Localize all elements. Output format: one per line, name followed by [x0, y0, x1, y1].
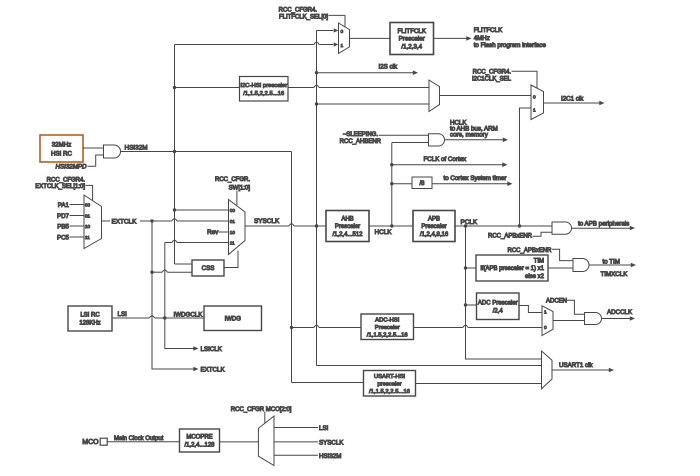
- junction PCLK / bus F: [518, 224, 521, 227]
- mux MCO source select: [258, 416, 274, 466]
- svg-text:ADCEN: ADCEN: [546, 299, 567, 305]
- svg-text:SYSCLK: SYSCLK: [319, 439, 344, 446]
- svg-text:RCC_APBxENR: RCC_APBxENR: [488, 234, 533, 240]
- divider /8: [412, 177, 432, 189]
- svg-text:01: 01: [230, 219, 236, 224]
- junction LSI / bus H: [163, 316, 166, 319]
- junction bus E to ADC prescaler: [464, 303, 467, 306]
- wire PC5 to mux: [70, 236, 85, 238]
- wire HCLK wire: [369, 225, 413, 227]
- wire bus C SYSCLK vertical: [316, 31, 318, 366]
- arrowhead EXTCLK bottom: [193, 367, 198, 372]
- wire FLITFCLK prescaler output: [434, 37, 467, 39]
- mux FLITFCLK_SEL: [339, 23, 350, 53]
- wire ADC prescaler output to mux input 1: [519, 306, 542, 313]
- wire bus E PCLK vertical (lower) to USART mux: [466, 330, 542, 359]
- svg-text:RCC_APBxENR: RCC_APBxENR: [507, 248, 552, 254]
- wire PD7 to mux: [70, 215, 85, 217]
- oscillator HSI RC 32MHz (orange box): [40, 135, 83, 162]
- mux I2C clock combiner: [429, 80, 440, 112]
- svg-text:USART1 clk: USART1 clk: [559, 362, 593, 369]
- svg-text:else x2: else x2: [525, 274, 545, 280]
- wire ADC-HSI output to ADC mux input 0: [468, 327, 542, 329]
- arrowhead HCLK to AHB bus: [503, 138, 508, 143]
- AND gate ADC enable: [585, 313, 602, 325]
- wire to Cortex System timer: [432, 183, 508, 185]
- svg-text:HSI RC: HSI RC: [51, 151, 73, 158]
- wire bus A HSI32M vertical: [174, 45, 176, 265]
- svg-text:CSS: CSS: [202, 265, 215, 272]
- wire SYSCLK to I2C combiner mux input: [317, 103, 430, 105]
- wire ADC mux output to gate: [553, 320, 585, 322]
- svg-text:128KHz: 128KHz: [79, 321, 100, 327]
- wire Rev to SW mux input 10: [219, 231, 229, 233]
- svg-text:/1,2,4...128: /1,2,4...128: [184, 443, 215, 449]
- svg-text:PCLK: PCLK: [461, 219, 478, 226]
- svg-text:00: 00: [85, 203, 91, 208]
- block ADC-HSI Prescaler: [361, 314, 414, 340]
- wire PCLK to TIM block: [466, 267, 477, 269]
- svg-text:MCOPRE: MCOPRE: [186, 435, 212, 441]
- svg-text:HSI32M: HSI32M: [125, 144, 148, 151]
- wire I2C1 clk output: [544, 102, 600, 104]
- wire MCOPRE input wire: [220, 441, 259, 443]
- wire LSI wire (right part): [155, 317, 204, 319]
- junction bus C at SYSCLK wire: [315, 224, 318, 227]
- svg-text:Prescaler: Prescaler: [335, 224, 360, 230]
- svg-text:PD7: PD7: [57, 213, 70, 220]
- wire HSI32M horizontal: [121, 151, 292, 153]
- arrowhead to Cortex System timer: [507, 181, 512, 186]
- junction bus B to ADC-HSI prescaler: [290, 326, 293, 329]
- arrowhead to APB peripherals: [630, 226, 635, 231]
- svg-text:APB: APB: [428, 217, 440, 223]
- arrowhead I2S clk: [413, 70, 418, 75]
- mux EXTCLK_SEL: [84, 195, 102, 249]
- arrowhead FLITFCLK output: [466, 36, 471, 41]
- wire LSI to SW mux input 11 (right): [177, 242, 228, 244]
- junction bus D to FCLK: [390, 163, 393, 166]
- wire MCO select wire: [264, 412, 266, 424]
- svg-text:HSI32MPD: HSI32MPD: [56, 164, 87, 171]
- arrowhead I2C1 clk: [599, 101, 604, 106]
- wire HSI RC to AND gate: [83, 147, 104, 149]
- mux USART1 clock select: [542, 351, 553, 389]
- svg-text:AHB: AHB: [341, 217, 353, 223]
- wire I2C-HSI prescaler output (left part): [288, 87, 314, 89]
- wire EXTCLK output (right part): [177, 220, 228, 222]
- mux I2C1CLK_SEL: [531, 85, 544, 120]
- svg-text:EXTCLK_SEL[1:0]: EXTCLK_SEL[1:0]: [35, 184, 85, 190]
- junction EXTCLK / bus G: [150, 219, 153, 222]
- svg-text:ADC-HSI: ADC-HSI: [375, 317, 400, 323]
- svg-text:FLITFCLK: FLITFCLK: [397, 28, 426, 35]
- wire ADCCLK wire: [602, 318, 631, 320]
- wire EXTCLK_SEL select wire: [86, 185, 93, 201]
- svg-text:00: 00: [230, 208, 236, 213]
- block MCOPRE prescaler: [180, 429, 220, 452]
- svg-text:/2,4: /2,4: [493, 308, 504, 314]
- svg-text:11: 11: [230, 241, 235, 246]
- svg-text:1: 1: [544, 309, 547, 315]
- block IWDG watchdog: [204, 306, 262, 331]
- wire USART-HSI output to USART mux: [416, 383, 542, 385]
- arrowhead FCLK of Cortex: [502, 162, 507, 167]
- wire FCLK of Cortex: [392, 164, 503, 166]
- block I2C-HSI prescaler: [240, 77, 289, 102]
- wire HSI32MPD to AND gate: [88, 155, 104, 166]
- svg-text:01: 01: [85, 214, 91, 219]
- svg-text:I2C-HSI prescaler: I2C-HSI prescaler: [240, 83, 287, 89]
- svg-text:TIMXCLK: TIMXCLK: [601, 271, 629, 278]
- mux ADC clock select: [542, 306, 553, 336]
- mux SW system clock: [229, 200, 246, 255]
- wire I2C combiner output to I2C1CLK_SEL mux: [440, 95, 532, 97]
- svg-text:/1,1.5,2,2.5...16: /1,1.5,2,2.5...16: [367, 333, 409, 339]
- wire HSI32M to MCO mux: [274, 454, 318, 456]
- block TIM clock multiplier: [476, 255, 548, 281]
- svg-text:SYSCLK: SYSCLK: [254, 218, 280, 225]
- svg-text:/1,2,4,8,16: /1,2,4,8,16: [420, 232, 449, 238]
- svg-text:EXTCLK: EXTCLK: [112, 219, 138, 226]
- block USART-HSI prescaler: [364, 371, 416, 397]
- wire bus E PCLK vertical (upper): [465, 226, 467, 325]
- svg-text:Rev: Rev: [207, 229, 219, 236]
- AND gate HSI32M gating: [104, 145, 121, 158]
- wire HCLK to /8 divider: [392, 183, 412, 185]
- svg-text:I2S clk: I2S clk: [379, 64, 398, 71]
- wire HCLK gate output: [445, 139, 504, 141]
- svg-text:I2C1 clk: I2C1 clk: [561, 95, 584, 102]
- svg-text:RCC_CFGR4.: RCC_CFGR4.: [473, 70, 512, 76]
- wire SYSCLK to FLITFCLK mux input 0: [317, 30, 334, 32]
- svg-text:to TIM: to TIM: [603, 258, 620, 265]
- arrowhead to TIM: [631, 263, 636, 268]
- svg-text:Prescaler: Prescaler: [375, 325, 400, 331]
- wire PCLK wire: [455, 225, 552, 227]
- svg-text:TIM: TIM: [534, 258, 544, 264]
- wire FLITFCLK mux output: [350, 37, 391, 39]
- svg-text:1: 1: [341, 43, 344, 49]
- svg-text:32MHz: 32MHz: [52, 142, 72, 149]
- junction bus A to SW mux input 00: [173, 208, 176, 211]
- AND gate HCLK enable: [429, 134, 445, 146]
- wire bus B HSI32M vertical: [291, 152, 293, 383]
- junction bus C to I2C mux: [315, 102, 318, 105]
- svg-text:/1,1.5,2,2.5...16: /1,1.5,2,2.5...16: [243, 91, 285, 97]
- svg-text:HCLK: HCLK: [375, 229, 393, 236]
- wire TIMXCLK wire: [589, 264, 631, 266]
- wire EXTCLK output (left part): [102, 220, 172, 222]
- svg-text:0: 0: [544, 325, 547, 331]
- wire bus G EXTCLK vertical to arrow: [152, 221, 194, 369]
- wire bus H LSI vertical / LSICLK: [165, 243, 194, 349]
- wire EXTCLK to CSS lower input (right): [167, 271, 192, 273]
- wire bus D HCLK vertical: [391, 143, 393, 227]
- svg-text:to Flash program interface: to Flash program interface: [474, 42, 547, 49]
- arrowhead ADCCLK: [630, 316, 635, 321]
- junction bus C to I2S clk: [315, 71, 318, 74]
- wire I2C-HSI prescaler output (right part): [319, 87, 429, 89]
- wire SW select wire: [236, 191, 238, 206]
- wire ADCEN to gate input: [567, 300, 585, 314]
- wire TIM APBxENR to gate input: [552, 249, 573, 260]
- block CSS clock security: [192, 260, 224, 276]
- wire TIM block output to gate: [548, 267, 573, 269]
- svg-text:LSI: LSI: [118, 311, 128, 318]
- AND gate APB peripherals enable: [552, 222, 571, 234]
- wire HSI to ADC-HSI prescaler (right): [319, 327, 361, 329]
- wire LSI wire (left part): [112, 317, 149, 319]
- wire LSI to MCO mux: [274, 427, 318, 429]
- svg-text:PB5: PB5: [57, 223, 69, 230]
- wire HSI32M to FLITFCLK mux input 1 (right): [319, 44, 333, 46]
- svg-text:RCC_CFGR MCO[2:0]: RCC_CFGR MCO[2:0]: [231, 407, 292, 413]
- svg-text:Main Clock Output: Main Clock Output: [114, 436, 164, 442]
- wire bus A to I2C-HSI prescaler input: [175, 87, 240, 89]
- svg-text:SW[1:0]: SW[1:0]: [229, 186, 251, 192]
- svg-text:LSI RC: LSI RC: [80, 313, 100, 319]
- wire HSI32M to FLITFCLK mux input 1 (left): [175, 44, 314, 46]
- svg-text:to Cortex System timer: to Cortex System timer: [444, 175, 507, 182]
- wire PCLK to ADC prescaler: [466, 304, 477, 306]
- junction bus D at HCLK wire: [390, 224, 393, 227]
- svg-text:HSI32M: HSI32M: [319, 453, 341, 460]
- wire to APB peripherals wire: [572, 227, 631, 229]
- svg-text:10: 10: [85, 224, 91, 229]
- wire HSI to ADC-HSI prescaler (left): [292, 327, 314, 329]
- wire bus B to USART-HSI prescaler input: [292, 382, 364, 384]
- wire bus F PCLK to I2C1CLK_SEL mux input 1: [520, 108, 532, 226]
- svg-text:PA1: PA1: [58, 202, 70, 209]
- wire I2C1CLK_SEL select wire: [512, 71, 538, 89]
- block APB Prescaler: [413, 211, 455, 242]
- net label EXTCLK: [110, 216, 140, 226]
- arrowhead into FLITFCLK mux input 1: [334, 42, 339, 46]
- svg-text:RCC_CFGR.: RCC_CFGR.: [215, 177, 250, 183]
- junction PCLK / bus E: [464, 224, 467, 227]
- wire PA1 to mux: [70, 204, 85, 206]
- svg-text:0: 0: [341, 29, 344, 35]
- svg-text:to APB peripherals: to APB peripherals: [578, 221, 629, 228]
- svg-text:IWDG: IWDG: [225, 316, 242, 322]
- arrowhead USART1 clk: [609, 368, 614, 373]
- svg-text:/8: /8: [419, 181, 425, 187]
- svg-text:ADCCLK: ADCCLK: [607, 309, 633, 316]
- wire SYSCLK to USART1 mux input: [317, 365, 542, 367]
- junction EXTCLK bus to CSS: [150, 271, 153, 274]
- svg-text:I2C1CLK_SEL: I2C1CLK_SEL: [472, 76, 512, 82]
- svg-text:EXTCLK: EXTCLK: [201, 366, 226, 373]
- arrowhead into FLITFCLK mux input 0: [334, 28, 339, 32]
- wire APBxENR to gate input: [533, 232, 553, 236]
- wire bus A to CSS upper input: [175, 263, 193, 265]
- svg-text:RCC_CFGR4.: RCC_CFGR4.: [279, 8, 318, 14]
- wire FLITFCLK_SEL to mux select: [329, 15, 346, 26]
- junction bus A to I2C-HSI prescaler: [173, 86, 176, 89]
- wire I2S clk: [317, 72, 414, 74]
- svg-text:RCC_CFGR4.: RCC_CFGR4.: [47, 177, 86, 183]
- junction bus D to /8 divider: [390, 182, 393, 185]
- svg-text:FLITFCLK: FLITFCLK: [474, 27, 503, 34]
- svg-text:1: 1: [533, 108, 536, 114]
- block FLITFCLK Prescaler: [390, 23, 434, 55]
- svg-text:/1,2,4...512: /1,2,4...512: [332, 232, 363, 238]
- svg-text:FCLK of Cortex: FCLK of Cortex: [424, 156, 468, 163]
- svg-text:11: 11: [85, 235, 90, 240]
- wire SLEEPING to HCLK gate input: [379, 134, 429, 136]
- oscillator LSI RC 128KHz: [68, 306, 112, 331]
- svg-text:FLITFCLK_SEL[0]: FLITFCLK_SEL[0]: [279, 14, 328, 20]
- wire SYSCLK (right part): [294, 225, 326, 227]
- svg-text:Prescaler: Prescaler: [421, 224, 446, 230]
- svg-text:Prescaler: Prescaler: [399, 36, 425, 43]
- svg-text:ADC Prescaler: ADC Prescaler: [478, 300, 518, 306]
- wire MCO wire: [107, 441, 179, 443]
- svg-text:USART-HSI: USART-HSI: [374, 374, 406, 380]
- svg-text:core, memory: core, memory: [450, 132, 489, 139]
- svg-text:/1,1.5,2,2.5...16: /1,1.5,2,2.5...16: [369, 389, 411, 395]
- svg-text:prescaler: prescaler: [377, 381, 401, 387]
- arrowhead LSICLK: [193, 346, 198, 351]
- wire SYSCLK (left part): [245, 225, 289, 227]
- svg-text:~SLEEPING.: ~SLEEPING.: [343, 132, 379, 138]
- svg-text:LSICLK: LSICLK: [201, 346, 223, 353]
- svg-text:RCC_AHBENR: RCC_AHBENR: [340, 139, 382, 145]
- svg-text:MCO: MCO: [82, 439, 99, 446]
- wire CSS output to SW mux: [224, 251, 238, 268]
- svg-text:LSI: LSI: [319, 425, 329, 432]
- wire EXTCLK to CSS lower input (left): [152, 271, 162, 273]
- wire ADC-HSI output (left part): [414, 327, 463, 329]
- AND gate TIM enable: [573, 259, 589, 272]
- wire PB5 to mux: [70, 225, 85, 227]
- block ADC Prescaler: [477, 293, 520, 320]
- svg-text:IWDGCLK: IWDGCLK: [174, 311, 204, 318]
- wire LSI to SW mux input 11 (left): [165, 242, 172, 244]
- wire HCLK to gate input: [392, 142, 429, 144]
- svg-text:/1,2,3,4: /1,2,3,4: [401, 43, 422, 50]
- junction HSI32M / bus A: [173, 150, 176, 153]
- svg-text:0: 0: [533, 95, 536, 101]
- wire bus A to SW mux input 00: [175, 209, 229, 211]
- svg-text:if(APB prescaler = 1) x1: if(APB prescaler = 1) x1: [480, 266, 544, 272]
- block AHB Prescaler: [326, 211, 369, 242]
- junction bus E to TIM block: [464, 266, 467, 269]
- wire SYSCLK to MCO mux: [274, 441, 318, 443]
- svg-text:10: 10: [230, 230, 236, 235]
- svg-text:PC5: PC5: [57, 234, 70, 241]
- wire USART1 clk wire: [552, 369, 609, 371]
